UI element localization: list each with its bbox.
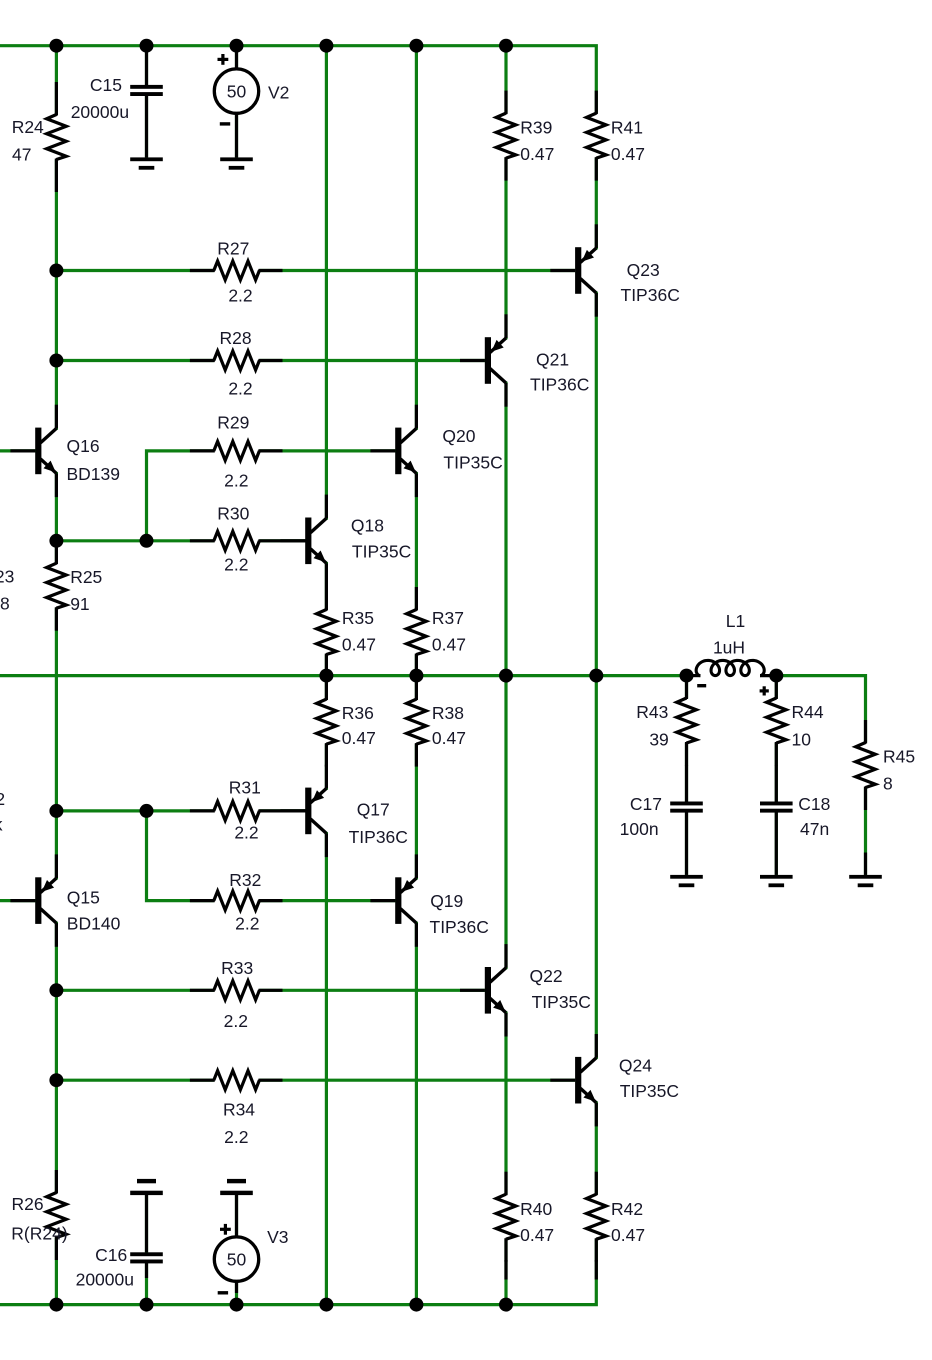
- svg-text:R30: R30: [217, 504, 249, 524]
- svg-text:TIP36C: TIP36C: [430, 917, 489, 937]
- svg-text:0.47: 0.47: [432, 634, 466, 654]
- svg-text:R27: R27: [217, 239, 249, 259]
- svg-text:0.47: 0.47: [432, 728, 466, 748]
- svg-text:R41: R41: [611, 117, 643, 137]
- svg-text:Q24: Q24: [619, 1056, 652, 1076]
- svg-text:R33: R33: [221, 958, 253, 978]
- svg-text:Q16: Q16: [67, 436, 100, 456]
- svg-text:R42: R42: [611, 1199, 643, 1219]
- svg-text:2.2: 2.2: [228, 379, 252, 399]
- svg-text:TIP36C: TIP36C: [530, 375, 589, 395]
- svg-text:R22: R22: [0, 789, 5, 809]
- svg-text:TIP35C: TIP35C: [532, 992, 591, 1012]
- svg-text:TIP36C: TIP36C: [621, 285, 680, 305]
- svg-text:Q23: Q23: [627, 260, 660, 280]
- svg-text:0.47: 0.47: [520, 1225, 554, 1245]
- svg-text:50: 50: [227, 1249, 247, 1269]
- svg-text:1uH: 1uH: [713, 638, 745, 658]
- svg-text:0.47: 0.47: [342, 728, 376, 748]
- svg-text:0.47: 0.47: [611, 144, 645, 164]
- svg-text:Q17: Q17: [357, 800, 390, 820]
- svg-text:R34: R34: [223, 1099, 255, 1119]
- svg-text:Q20: Q20: [442, 426, 475, 446]
- svg-text:10: 10: [792, 730, 812, 750]
- svg-text:2.2: 2.2: [234, 823, 258, 843]
- svg-text:R26: R26: [12, 1194, 44, 1214]
- svg-text:V2: V2: [268, 83, 289, 103]
- svg-text:1k: 1k: [0, 815, 3, 835]
- svg-text:R37: R37: [432, 608, 464, 628]
- svg-text:2.2: 2.2: [224, 1127, 248, 1147]
- svg-text:R44: R44: [792, 702, 824, 722]
- svg-text:2.2: 2.2: [224, 471, 248, 491]
- svg-text:R39: R39: [520, 117, 552, 137]
- svg-text:Q19: Q19: [430, 891, 463, 911]
- svg-text:91: 91: [70, 594, 89, 614]
- svg-text:R25: R25: [70, 567, 102, 587]
- svg-text:R29: R29: [217, 412, 249, 432]
- svg-text:R32: R32: [229, 870, 261, 890]
- svg-text:R38: R38: [432, 703, 464, 723]
- svg-text:R23: R23: [0, 567, 14, 587]
- svg-text:TIP35C: TIP35C: [352, 542, 411, 562]
- svg-text:R45: R45: [883, 747, 915, 767]
- svg-text:R(R24): R(R24): [11, 1224, 67, 1244]
- svg-text:20000u: 20000u: [76, 1270, 134, 1290]
- svg-text:TIP36C: TIP36C: [349, 827, 408, 847]
- svg-text:0.47: 0.47: [520, 144, 554, 164]
- svg-text:39: 39: [649, 730, 668, 750]
- svg-text:R31: R31: [229, 777, 261, 797]
- svg-text:2.2: 2.2: [228, 285, 252, 305]
- svg-text:R43: R43: [636, 702, 668, 722]
- svg-text:50: 50: [227, 81, 247, 101]
- svg-text:Q22: Q22: [530, 966, 563, 986]
- svg-text:R40: R40: [520, 1199, 552, 1219]
- svg-text:R36: R36: [342, 703, 374, 723]
- svg-text:Q21: Q21: [536, 350, 569, 370]
- svg-text:C16: C16: [95, 1245, 127, 1265]
- svg-text:C17: C17: [630, 794, 662, 814]
- svg-text:R24: R24: [12, 117, 44, 137]
- svg-text:BD139: BD139: [67, 464, 121, 484]
- svg-text:Q18: Q18: [351, 516, 384, 536]
- svg-text:100n: 100n: [620, 819, 659, 839]
- svg-text:47n: 47n: [800, 819, 829, 839]
- svg-text:TIP35C: TIP35C: [443, 452, 502, 472]
- svg-text:20000u: 20000u: [71, 102, 129, 122]
- svg-text:V3: V3: [267, 1227, 288, 1247]
- svg-text:TIP35C: TIP35C: [620, 1081, 679, 1101]
- svg-text:2.2: 2.2: [224, 1011, 248, 1031]
- svg-text:0.47: 0.47: [611, 1225, 645, 1245]
- svg-text:8: 8: [883, 774, 893, 794]
- svg-text:Q15: Q15: [67, 888, 100, 908]
- svg-text:R28: R28: [220, 328, 252, 348]
- svg-text:2.2: 2.2: [235, 914, 259, 934]
- svg-text:C18: C18: [798, 794, 830, 814]
- svg-text:47: 47: [12, 145, 31, 165]
- svg-text:2.2: 2.2: [224, 555, 248, 575]
- svg-text:L1: L1: [726, 611, 745, 631]
- svg-text:18: 18: [0, 594, 10, 614]
- svg-text:R35: R35: [342, 608, 374, 628]
- svg-text:C15: C15: [90, 75, 122, 95]
- svg-text:BD140: BD140: [67, 913, 121, 933]
- svg-text:0.47: 0.47: [342, 634, 376, 654]
